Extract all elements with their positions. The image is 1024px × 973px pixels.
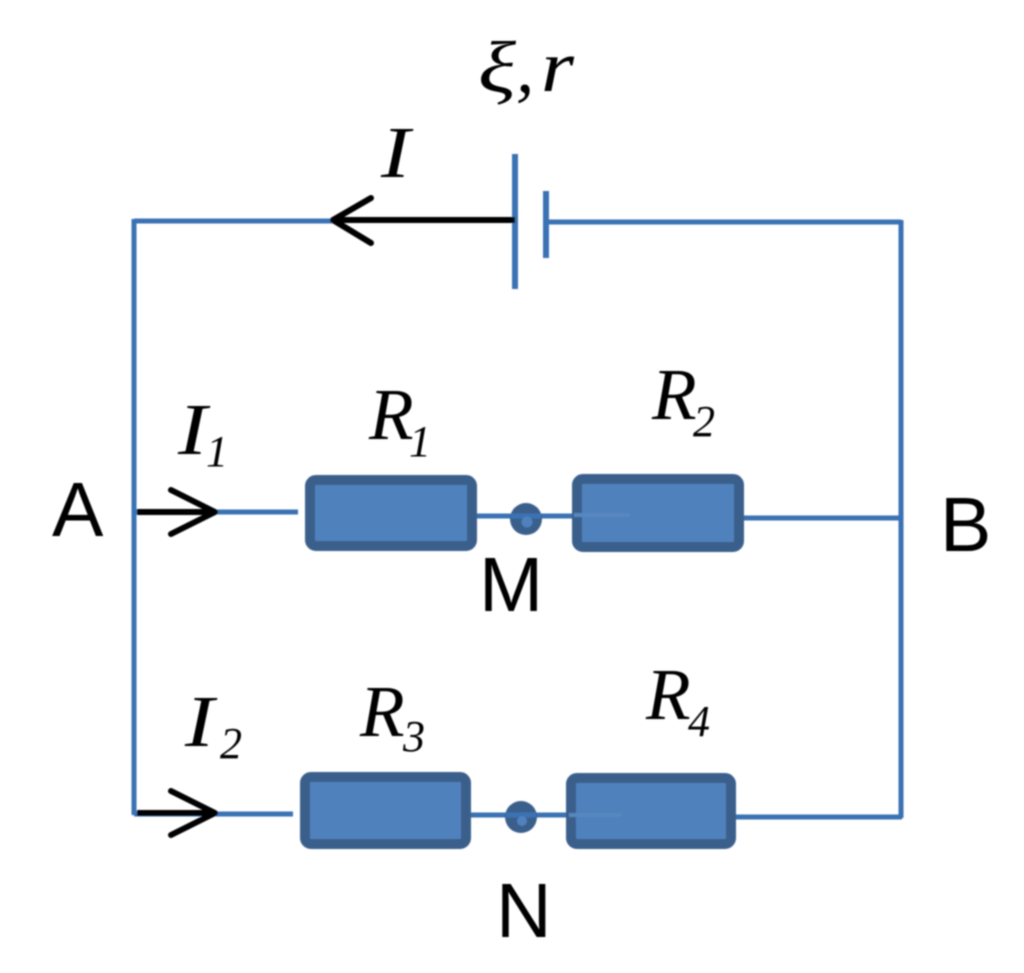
wire branch2 R3 to R4 (470, 813, 568, 818)
svg-text:N: N (496, 868, 552, 954)
svg-text:M: M (479, 542, 543, 628)
svg-text:4: 4 (688, 697, 710, 746)
svg-text:3: 3 (402, 712, 425, 761)
svg-text:R: R (645, 654, 691, 735)
svg-text:2: 2 (693, 397, 715, 446)
wire through node N (506, 813, 536, 818)
current arrow I1 shaft (137, 509, 215, 515)
svg-text:R: R (359, 671, 405, 752)
current arrow I2 shaft (137, 810, 215, 816)
wire branch1 R2 to B (743, 516, 901, 521)
svg-text:r: r (541, 26, 575, 107)
svg-text:A: A (52, 467, 104, 553)
battery short plate (negative) (543, 191, 549, 258)
current arrow I head (333, 198, 371, 243)
svg-text:I: I (184, 681, 219, 762)
svg-text:I: I (380, 112, 415, 193)
battery long plate (positive) (512, 154, 518, 289)
node N inner highlight (517, 816, 527, 826)
wire branch2 A to R3 (134, 812, 293, 817)
svg-text:B: B (940, 482, 991, 568)
wire stub inside R2 (574, 513, 630, 517)
svg-text:1: 1 (206, 427, 228, 476)
wire top-left horizontal (134, 219, 338, 224)
wire branch1 R1 to R2 (476, 514, 573, 519)
resistor R4 (571, 778, 731, 844)
node M dot (510, 503, 542, 535)
wire through node M (511, 514, 541, 519)
svg-text:2: 2 (220, 719, 242, 768)
resistor R1 (310, 480, 472, 546)
wire branch1 A to R1 (134, 510, 298, 515)
node M inner highlight (522, 517, 533, 528)
svg-text:R: R (368, 374, 414, 455)
wire stub inside R4 (569, 813, 622, 817)
svg-text:,: , (516, 27, 534, 108)
node N dot (505, 801, 537, 833)
resistor R3 (305, 777, 466, 844)
wire branch2 R4 to right (735, 815, 902, 820)
current arrow I1 head (171, 490, 215, 534)
wire top-right horizontal (546, 220, 901, 225)
current arrow I2 head (171, 791, 215, 835)
svg-text:R: R (651, 354, 697, 435)
resistor R2 (577, 479, 739, 547)
wire right vertical (899, 220, 904, 818)
wire left vertical (132, 219, 137, 815)
current arrow I shaft (333, 217, 515, 223)
svg-text:1: 1 (409, 417, 431, 466)
svg-text:ξ: ξ (478, 27, 517, 108)
